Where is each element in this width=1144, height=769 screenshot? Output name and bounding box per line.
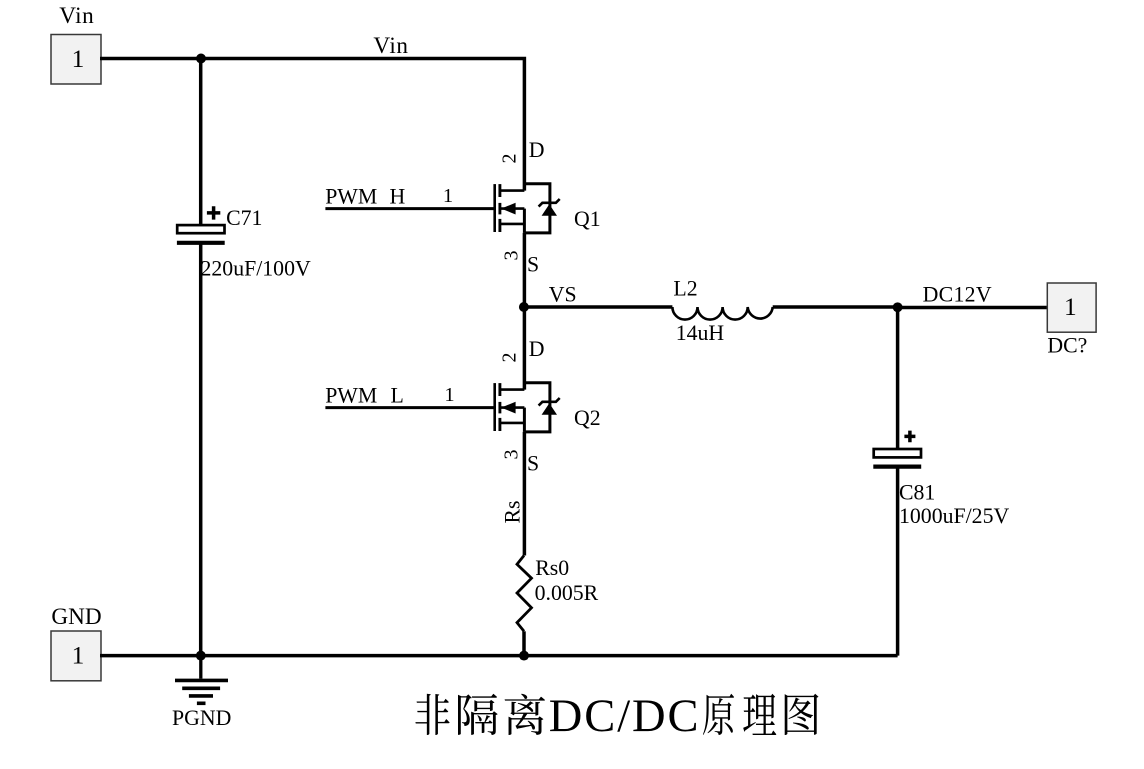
capacitor C71 xyxy=(177,206,311,281)
svg-text:D: D xyxy=(529,138,545,162)
resistor Rs0 xyxy=(517,556,532,632)
port GND box xyxy=(51,631,101,681)
svg-text:Rs0: Rs0 xyxy=(535,556,569,580)
svg-text:1000uF/25V: 1000uF/25V xyxy=(899,504,1009,528)
svg-text:Q2: Q2 xyxy=(574,406,601,430)
title char 理 xyxy=(743,694,776,735)
svg-text:3: 3 xyxy=(501,251,523,261)
wire Q1 source to VS node xyxy=(523,233,527,307)
C81 plus sign xyxy=(904,431,915,443)
Q1 body-diode triangle xyxy=(542,204,557,216)
Q2 drain stub xyxy=(500,388,525,391)
svg-text:D: D xyxy=(529,337,545,361)
port DC? box xyxy=(1047,283,1096,332)
wire Q2 source to Rs0 xyxy=(523,432,527,556)
Q2 body-diode zener bar xyxy=(539,398,560,406)
Q1 source stub xyxy=(500,223,525,226)
Q1 bulk stub xyxy=(501,207,524,210)
wire DC12V to port xyxy=(898,306,1048,309)
svg-text:L: L xyxy=(391,384,404,408)
svg-text:C81: C81 xyxy=(899,480,935,504)
Q1 body-diode zener bar xyxy=(539,199,560,207)
wire VS to Q2 drain xyxy=(523,307,527,390)
C71 negative plate xyxy=(177,241,225,245)
wire C81 branch xyxy=(896,307,900,449)
PGND bar 4 xyxy=(197,701,206,705)
svg-text:1: 1 xyxy=(72,642,85,670)
svg-text:H: H xyxy=(390,185,406,209)
svg-text:Vin: Vin xyxy=(373,33,408,59)
svg-text:VS: VS xyxy=(549,282,577,306)
node junction Vin/C71 xyxy=(196,54,206,64)
svg-text:0.005R: 0.005R xyxy=(535,581,599,605)
svg-text:14uH: 14uH xyxy=(676,321,725,345)
wire VS to L2 xyxy=(524,305,673,308)
svg-text:1: 1 xyxy=(444,384,454,406)
Q1 bulk arrow xyxy=(501,203,515,215)
svg-text:PWM: PWM xyxy=(325,384,377,408)
Q1 drain stub xyxy=(500,189,525,192)
wire Vin rail xyxy=(100,59,524,191)
wire Rs0 to ground rail xyxy=(522,631,526,655)
Q1 body-diode loop xyxy=(524,184,550,233)
svg-text:S: S xyxy=(527,452,539,476)
transistor Q1 xyxy=(495,184,560,233)
Q1 channel segments xyxy=(498,184,501,197)
wire L2 to DC12V node xyxy=(773,305,898,308)
Q2 channel segments xyxy=(498,383,501,396)
PGND bar 2 xyxy=(182,686,220,690)
svg-text:DC?: DC? xyxy=(1047,333,1087,357)
Q2 bulk stub xyxy=(501,406,524,409)
Q1 gate bar xyxy=(493,184,496,232)
C81 negative plate xyxy=(873,465,921,469)
Q2 source stub xyxy=(500,422,525,425)
svg-text:2: 2 xyxy=(498,353,520,363)
svg-text:DC12V: DC12V xyxy=(923,282,992,306)
svg-text:C71: C71 xyxy=(226,206,262,230)
svg-text:L2: L2 xyxy=(673,276,697,300)
title char 原 xyxy=(703,694,734,735)
PGND bar 1 xyxy=(175,679,228,683)
PGND bar 3 xyxy=(189,694,213,698)
Q2 gate wire xyxy=(325,406,494,409)
wire C71 top xyxy=(199,59,203,227)
wire C81 to ground rail xyxy=(896,468,900,656)
svg-text:1: 1 xyxy=(1064,293,1077,321)
wire ground rail xyxy=(100,654,898,658)
Q1 gate wire xyxy=(325,207,494,210)
node DC12V junction xyxy=(893,302,903,312)
node VS junction xyxy=(519,302,529,312)
svg-text:Rs: Rs xyxy=(500,500,524,523)
Q1 source connector xyxy=(523,209,526,233)
Q2 gate bar xyxy=(493,383,496,431)
svg-text:GND: GND xyxy=(51,604,101,630)
title char 离 xyxy=(505,694,545,735)
Q2 source connector xyxy=(523,408,526,432)
svg-text:1: 1 xyxy=(443,185,453,207)
capacitor C81 xyxy=(873,431,1009,528)
Q2 body-diode triangle xyxy=(542,403,557,415)
C71 plus sign xyxy=(207,206,220,219)
title 非隔离DC/DC原理图 xyxy=(415,691,818,742)
wire C71 bottom xyxy=(199,244,203,656)
svg-text:220uF/100V: 220uF/100V xyxy=(201,256,311,280)
C71 positive plate xyxy=(177,225,224,233)
svg-text:PGND: PGND xyxy=(172,706,231,730)
node Rs0/rail junction xyxy=(519,651,529,661)
svg-text:1: 1 xyxy=(72,45,85,73)
Q2 body-diode loop xyxy=(524,383,550,432)
ground PGND symbol xyxy=(175,656,228,704)
PGND stub xyxy=(199,656,202,679)
svg-text:PWM: PWM xyxy=(325,185,377,209)
svg-text:Vin: Vin xyxy=(59,3,94,29)
title char 非 xyxy=(415,694,449,735)
Q2 bulk arrow xyxy=(501,402,515,414)
svg-text:DC/DC: DC/DC xyxy=(549,691,701,742)
transistor Q2 xyxy=(495,383,560,432)
title char 图 xyxy=(785,694,819,735)
svg-text:3: 3 xyxy=(501,450,523,460)
svg-text:S: S xyxy=(527,253,539,277)
C81 positive plate xyxy=(874,449,921,457)
inductor L2 xyxy=(672,307,772,320)
port Vin box xyxy=(51,35,101,85)
svg-text:2: 2 xyxy=(498,154,520,164)
node junction GND/PGND xyxy=(196,651,206,661)
title char 隔 xyxy=(458,694,498,735)
svg-text:Q1: Q1 xyxy=(574,207,601,231)
